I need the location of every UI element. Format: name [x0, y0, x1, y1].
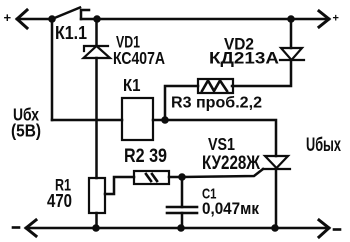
wire R1 bottom to rail — [95, 213, 98, 228]
wire R2 right to node E — [169, 176, 182, 179]
label КУ228Ж — [202, 153, 261, 174]
wire top rail right segment — [291, 18, 329, 21]
svg-text:470: 470 — [47, 190, 72, 211]
thyristor VS1 cathode bar — [263, 168, 290, 170]
svg-text:0,047мк: 0,047мк — [202, 200, 260, 218]
label C1 — [202, 186, 217, 203]
svg-text:К1: К1 — [123, 75, 141, 95]
label 470 — [47, 190, 72, 211]
resistor R2 power marks — [146, 174, 157, 181]
svg-text:Uбых: Uбых — [306, 135, 341, 156]
wire VD1 anode (from top rail down) — [95, 19, 98, 46]
resistor R2 body — [134, 171, 169, 184]
svg-text:+: + — [4, 10, 12, 25]
wire node D up to R3 — [165, 86, 198, 120]
diode VD2 triangle — [281, 48, 302, 60]
capacitor C1 bottom plate — [167, 212, 197, 215]
wire VD1 to R1 vertical — [95, 58, 98, 178]
wire VS1 cathode to rail — [275, 169, 278, 228]
junction dot A (top rail / switch) — [48, 15, 56, 23]
arrow bottom-left — [26, 220, 36, 236]
svg-text:(5В): (5В) — [11, 121, 41, 141]
label 0,047мк — [202, 200, 260, 218]
thyristor VS1 triangle — [265, 156, 288, 168]
junction dot H (VS1 / rail) — [271, 224, 279, 232]
switch K1.1 fixed contact tick — [81, 10, 89, 19]
zener diode VD1 triangle — [84, 46, 111, 58]
svg-text:КУ228Ж: КУ228Ж — [202, 153, 261, 174]
svg-text:К1.1: К1.1 — [55, 22, 87, 43]
label + (top left) — [4, 10, 12, 25]
label КД213А — [209, 49, 279, 68]
resistor R3 wirewound zigzag mark — [202, 81, 227, 92]
label - (bottom left) — [13, 226, 19, 229]
label (5В) — [11, 121, 41, 141]
label VD2 — [224, 35, 254, 54]
svg-text:+: + — [333, 13, 339, 25]
wire VD2 anode (from top rail down) — [290, 19, 293, 48]
wire node E to C1 top — [181, 177, 184, 207]
label K1 — [123, 75, 141, 95]
junction dot B (top rail / VD1) — [93, 15, 101, 23]
wire node E to VS1 gate — [182, 169, 263, 177]
junction dot G (C1 / rail) — [177, 224, 185, 232]
wire C1 bottom to rail — [181, 213, 184, 228]
label R2 39 — [124, 146, 167, 167]
wire R1 tap to R2 — [105, 177, 134, 194]
label R1 — [55, 176, 71, 195]
zener diode VD1 cathode bar — [84, 46, 108, 51]
svg-text:КС407А: КС407А — [113, 48, 165, 68]
label + (top right) — [333, 13, 339, 25]
label K1.1 — [55, 22, 87, 43]
arrow bottom-right — [319, 220, 329, 237]
arrow top-right — [319, 11, 329, 27]
resistor R3 body — [198, 79, 233, 93]
switch K1.1 blade — [52, 8, 80, 20]
wire bottom rail — [26, 227, 329, 230]
label КС407А — [113, 48, 165, 68]
label R3 проб.2,2 — [171, 95, 262, 112]
svg-text:VS1: VS1 — [208, 134, 235, 154]
wire left branch horizontal to K1 — [52, 119, 122, 122]
label Uвых — [306, 135, 341, 156]
junction dot D (K1 / R3 / VS1) — [161, 116, 169, 124]
label VD1 — [116, 34, 140, 52]
junction dot E (R2 / C1 / VS1 gate) — [178, 173, 186, 181]
svg-text:КД213А: КД213А — [209, 49, 279, 68]
label - (bottom right) — [334, 228, 340, 231]
wire top rail left segment — [17, 18, 52, 21]
wire node D to VS1 anode corner — [165, 120, 276, 156]
label VS1 — [208, 134, 235, 154]
svg-text:R3 проб.2,2: R3 проб.2,2 — [171, 95, 262, 112]
wire top rail middle segment — [81, 18, 291, 21]
junction dot C (top rail / VD2) — [287, 15, 295, 23]
svg-text:R2 39: R2 39 — [124, 146, 167, 167]
diode VD2 cathode bar — [280, 59, 304, 61]
wire K1 right to node D — [153, 119, 165, 122]
relay coil K1 — [122, 98, 153, 140]
capacitor C1 top plate — [167, 206, 197, 209]
label Uвх — [13, 105, 39, 125]
resistor R1 body — [89, 178, 105, 213]
wire R3 right to VD2 — [232, 60, 291, 86]
wire left branch vertical — [51, 19, 54, 120]
arrow top-left — [17, 10, 27, 28]
junction dot F (R1 / rail) — [92, 224, 100, 232]
